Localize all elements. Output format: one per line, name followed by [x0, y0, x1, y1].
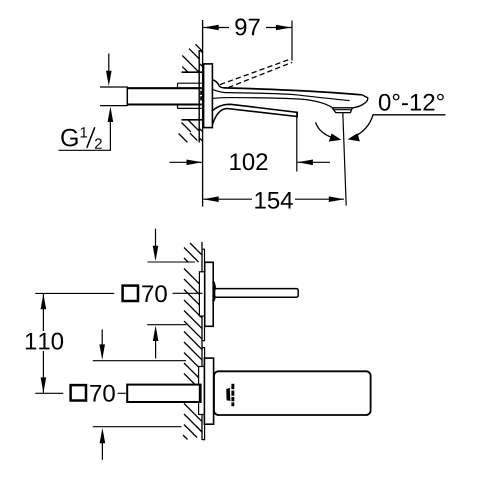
dimension 110 line lower part	[42, 351, 44, 393]
top reference extension line	[148, 261, 196, 263]
G1/2 down arrow	[108, 54, 110, 73]
lower in-wall box stub bottom	[202, 424, 204, 439]
swivel arc left arrowhead	[329, 134, 342, 142]
mid up arrow	[155, 341, 157, 359]
escutcheon plate (side view)	[204, 64, 213, 128]
lower in-wall box stub top	[202, 348, 204, 359]
supply pipe segment divider	[126, 87, 128, 106]
handle escutcheon (plan view)	[205, 262, 214, 326]
mid up arrow extension line	[147, 324, 186, 326]
wall face line (plan view)	[201, 242, 203, 440]
connector blocks between wall and escutcheon	[200, 91, 204, 95]
dimension 97 right arrowhead	[276, 25, 292, 31]
spout underside line	[212, 98, 332, 108]
dimension 110 top arrowhead	[41, 294, 47, 310]
dimension 154 line left part	[203, 198, 252, 200]
concealed body top line	[182, 71, 203, 73]
dimension text 102	[230, 153, 267, 170]
concealed body bottom line	[182, 119, 203, 121]
spout trumpet second curve	[212, 89, 225, 92]
supply pipe thin left segment	[100, 87, 127, 106]
spout second line	[225, 93, 350, 101]
supply pipe main segment	[127, 88, 202, 104]
G1/2 leader line	[59, 122, 111, 150]
angle text 0-12	[379, 94, 444, 111]
dimension 102 left arrow	[170, 161, 203, 163]
upper in-wall box stub top	[202, 249, 204, 262]
spout trumpet top curve	[212, 80, 224, 88]
pipe collar near wall	[178, 83, 202, 108]
wall hatching lower band	[179, 120, 203, 142]
wall hatching band (plan view)	[183, 243, 202, 440]
dimension 154 line right part	[295, 198, 344, 200]
dimension text 154	[255, 192, 292, 209]
swivel arc left	[316, 122, 335, 138]
top down arrow	[155, 229, 157, 248]
dimension 97 extension line	[291, 21, 293, 61]
spout lower fin	[212, 104, 297, 124]
aerator outlet	[332, 108, 352, 113]
bottom up arrow extension line	[93, 426, 182, 428]
thread size text G	[61, 129, 77, 147]
swivel arc right arrowhead	[348, 133, 360, 141]
raised-position dashed line lower	[228, 62, 292, 87]
dimension 154 right arrowhead	[329, 196, 345, 202]
dimension 102 right arrow	[297, 161, 330, 163]
bottom up arrow	[101, 443, 103, 460]
dimension 97 line left part	[203, 27, 229, 29]
dimension text 70 lower	[90, 385, 115, 402]
spout logo mark text column	[231, 384, 234, 406]
square symbol upper	[123, 286, 138, 301]
dimension 154 left arrowhead	[203, 196, 219, 202]
mid down arrow	[101, 329, 103, 345]
thread size slash	[87, 127, 95, 148]
upper mounting plate	[199, 272, 205, 316]
dimension 110 bottom reference line	[35, 392, 63, 394]
upper in-wall box stub bottom	[202, 326, 204, 340]
dimension text 70 upper	[142, 285, 167, 302]
handle lever	[215, 289, 299, 298]
dimension text 110	[26, 333, 63, 350]
square symbol lower	[71, 385, 86, 400]
dimension 110 bottom arrowhead	[41, 377, 47, 393]
swivel leader underline	[355, 115, 446, 137]
dimension text 97	[235, 18, 259, 35]
lower mounting plate	[199, 367, 205, 415]
handle cartridge bulge	[213, 282, 215, 302]
dimension 102 extension line	[296, 113, 298, 172]
water stream / extension line	[343, 113, 346, 206]
pipe end block at wall	[199, 385, 202, 402]
thread size text 1	[81, 127, 88, 137]
dimension 97 line right part	[266, 27, 292, 29]
spout logo mark left blob	[226, 388, 230, 401]
wall hatching upper band	[182, 44, 202, 72]
spout escutcheon (plan view)	[204, 358, 213, 424]
raised-position dashed line upper	[220, 59, 290, 84]
G1/2 up arrowhead	[108, 107, 114, 123]
spout tip	[353, 95, 368, 108]
thread size text 2	[95, 138, 102, 149]
leader dash lower 70	[118, 392, 126, 394]
in-wall flange edge line	[198, 50, 200, 143]
dimension 97 left arrowhead	[203, 25, 219, 31]
dimension 110 top reference line	[35, 292, 114, 294]
dimension 110 line upper part	[42, 294, 44, 331]
spout top edge	[224, 88, 362, 95]
aerator inner line	[334, 109, 352, 111]
supply pipe (plan view)	[127, 385, 200, 402]
wall face line (top view)	[202, 20, 204, 207]
mid down arrow extension line	[93, 360, 186, 362]
spout body (plan view)	[214, 371, 371, 415]
leader line upper 70	[173, 292, 203, 294]
